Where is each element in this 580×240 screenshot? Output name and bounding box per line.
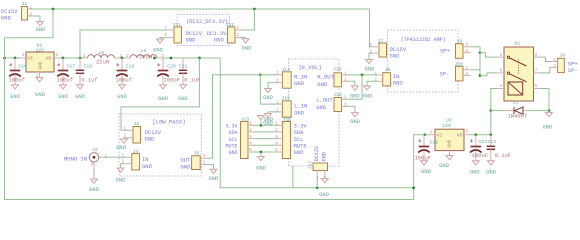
- ground symbol C20: [160, 85, 167, 89]
- svg-text:3: 3: [249, 135, 252, 140]
- svg-text:1: 1: [370, 43, 373, 48]
- svg-text:J11: J11: [173, 22, 182, 28]
- svg-text:2: 2: [466, 72, 469, 77]
- svg-text:GND: GND: [317, 81, 328, 88]
- svg-text:1: 1: [83, 54, 86, 59]
- svg-text:L5: L5: [98, 50, 104, 56]
- svg-text:GND: GND: [486, 170, 496, 176]
- svg-text:J10: J10: [455, 61, 464, 67]
- wire J3.2 to ground: [124, 138, 128, 139]
- svg-text:1: 1: [466, 43, 469, 48]
- connector J9: [456, 44, 464, 59]
- svg-text:GND: GND: [178, 96, 188, 102]
- svg-text:SDA: SDA: [228, 130, 237, 136]
- ground symbol J17.2: [321, 179, 328, 183]
- junction on rail x=63: [62, 57, 65, 60]
- pin J13.3: [248, 138, 253, 140]
- wire diode node down to U3 VO: [490, 111, 492, 135]
- svg-text:7: 7: [535, 69, 538, 74]
- svg-text:C24: C24: [488, 139, 497, 145]
- relay coil: [508, 82, 523, 95]
- ground symbol J3.2: [121, 139, 128, 143]
- svg-text:GND: GND: [186, 37, 197, 44]
- svg-text:GND: GND: [208, 176, 218, 182]
- junction on rail x=15: [14, 57, 17, 60]
- svg-text:GND: GND: [153, 48, 163, 54]
- ground symbol coil: [546, 113, 553, 117]
- junction on rail x=122: [121, 57, 124, 60]
- svg-text:J17: J17: [308, 161, 314, 170]
- svg-text:SP-: SP-: [568, 67, 578, 74]
- wire jack sleeve to ground: [93, 169, 95, 179]
- svg-text:1: 1: [30, 6, 33, 11]
- svg-text:GND: GND: [393, 80, 404, 87]
- wire volume in to J15.1: [260, 75, 278, 104]
- svg-text:1: 1: [375, 71, 378, 76]
- svg-text:J16: J16: [283, 117, 292, 123]
- svg-text:100uf: 100uf: [116, 77, 133, 84]
- wire diode left segment: [491, 110, 507, 112]
- wire to J14.1: [260, 74, 278, 76]
- svg-text:C20: C20: [167, 63, 176, 69]
- junction bottom loop at U3 feed: [412, 186, 415, 189]
- wire J9 to relay pin1: [480, 53, 498, 57]
- wire J18.2 to ground: [346, 81, 355, 86]
- wire J18.1 to amp in: [346, 74, 378, 76]
- wire K1.7 to J6.2: [540, 68, 552, 73]
- svg-text:GND: GND: [39, 61, 44, 69]
- connector J3: [133, 127, 141, 144]
- junction volume R input: [259, 73, 262, 76]
- ground symbol J18.2: [352, 86, 359, 90]
- svg-text:12V: 12V: [36, 47, 45, 53]
- pin U2.2 ground stub: [39, 72, 41, 78]
- dashed box LOW PASS: [119, 114, 201, 176]
- relay K1: [504, 47, 534, 101]
- junction 3.3V row: [260, 124, 263, 127]
- pin U3.3: [464, 134, 470, 136]
- svg-text:1: 1: [500, 53, 503, 58]
- wire J17.1 to bottom loop: [316, 176, 318, 188]
- ground symbol GND row: [258, 157, 265, 161]
- svg-text:3: 3: [56, 53, 59, 58]
- ground symbol U2: [36, 78, 43, 82]
- junction J10 output: [479, 74, 482, 77]
- svg-text:J7: J7: [378, 38, 384, 44]
- ground symbol J11.2: [157, 39, 164, 43]
- capacitor C23: [475, 135, 477, 147]
- inductor L5: [88, 55, 115, 58]
- pin K1.7: [534, 72, 541, 74]
- wire K1.5 down to diode: [540, 89, 549, 111]
- svg-text:GND: GND: [542, 125, 552, 131]
- pin K1.1: [498, 56, 505, 58]
- svg-text:GND: GND: [294, 80, 305, 87]
- svg-text:GND: GND: [58, 94, 68, 100]
- connector J19: [334, 98, 342, 112]
- connector J17: [313, 163, 328, 171]
- ground symbol J12.2: [242, 39, 249, 43]
- svg-text:2: 2: [276, 79, 279, 84]
- connector J14: [282, 72, 291, 88]
- capacitor C16: [14, 58, 16, 71]
- svg-text:GND: GND: [242, 46, 252, 52]
- wire J1.2 to ground: [33, 16, 40, 22]
- svg-text:L_OUT: L_OUT: [316, 97, 333, 104]
- svg-text:GND: GND: [350, 119, 360, 125]
- wire rail VO segment: [60, 57, 85, 59]
- svg-text:1: 1: [466, 66, 469, 71]
- connector J8: [383, 73, 391, 86]
- svg-text:1: 1: [122, 154, 125, 159]
- junction on rail x=199.4: [198, 57, 201, 60]
- inductor L6: [130, 55, 157, 58]
- svg-text:C23: C23: [479, 139, 488, 145]
- svg-text:[LOW PASS]: [LOW PASS]: [153, 119, 186, 126]
- svg-text:2: 2: [466, 49, 469, 54]
- svg-text:0.1uF: 0.1uF: [495, 152, 512, 159]
- connector J12: [228, 27, 236, 43]
- junction U3 VI: [423, 133, 426, 136]
- ground symbol J5.2: [210, 169, 217, 173]
- svg-text:2: 2: [276, 108, 279, 113]
- svg-text:1: 1: [237, 26, 240, 31]
- svg-text:(TPA3122D2 AMP): (TPA3122D2 AMP): [401, 37, 446, 43]
- svg-text:GND: GND: [294, 149, 305, 156]
- svg-text:C16: C16: [18, 63, 27, 69]
- dashed box DC12_DC3.3V: [177, 15, 230, 46]
- wire top rail drop to left rail: [5, 9, 54, 38]
- svg-text:GND: GND: [448, 139, 453, 147]
- svg-text:OUT: OUT: [181, 156, 192, 163]
- pin U3.2 ground: [449, 151, 451, 156]
- wire J5.1 audio up to volume in: [206, 75, 261, 159]
- pin jack sleeve stub: [93, 162, 95, 169]
- svg-text:GND: GND: [36, 27, 46, 33]
- svg-text:GND: GND: [365, 67, 375, 73]
- connector J10: [456, 66, 464, 81]
- svg-text:1: 1: [126, 54, 129, 59]
- svg-text:1N4007: 1N4007: [508, 113, 528, 120]
- svg-text:2: 2: [344, 103, 347, 108]
- pin U3.1: [430, 134, 436, 136]
- wire main rail left segment: [5, 57, 21, 59]
- svg-text:1: 1: [276, 71, 279, 76]
- wire bottom loop up to U3 VI: [414, 135, 425, 200]
- svg-text:GND: GND: [316, 104, 327, 111]
- pin J16.3: [278, 138, 283, 140]
- wire coil return to ground: [548, 111, 550, 113]
- wire up to ground symbol: [260, 121, 262, 126]
- wire J5.2 to ground: [206, 165, 214, 170]
- svg-text:J18: J18: [333, 67, 342, 73]
- svg-text:100uf: 100uf: [8, 77, 25, 84]
- junction at rail left end: [3, 57, 6, 60]
- wire J19.2 to ground: [346, 106, 355, 112]
- svg-text:SP+: SP+: [440, 48, 450, 55]
- wire J11.2 to ground: [160, 38, 169, 39]
- audio jack J2: [89, 153, 98, 162]
- junction C24 and relay feed: [489, 133, 492, 136]
- capacitor C18: [79, 58, 81, 70]
- svg-text:[E_VOL]: [E_VOL]: [299, 64, 322, 71]
- capacitor C22: [423, 135, 425, 147]
- svg-text:VO: VO: [46, 56, 52, 62]
- junction top rail at J12 riser: [253, 8, 256, 11]
- junction diode cathode: [548, 109, 551, 112]
- junction bottom at J17: [316, 186, 319, 189]
- connector J6: [558, 58, 565, 72]
- wire J10 to relay pin8: [480, 73, 498, 76]
- svg-text:GND: GND: [263, 95, 273, 101]
- svg-text:2: 2: [30, 13, 33, 18]
- svg-text:22uH: 22uH: [96, 59, 109, 66]
- svg-text:GND: GND: [421, 169, 431, 175]
- connector J1: [22, 7, 28, 21]
- dashed box E_VOL: [289, 59, 340, 166]
- svg-text:1: 1: [554, 58, 557, 63]
- capacitor C21: [182, 58, 184, 70]
- svg-text:C18: C18: [84, 63, 93, 69]
- svg-text:1: 1: [344, 71, 347, 76]
- svg-text:J13: J13: [241, 117, 250, 123]
- svg-text:GND: GND: [116, 178, 126, 184]
- capacitor C20: [162, 58, 164, 71]
- ground symbol J14.2: [265, 89, 272, 93]
- wire J17.2 to ground: [324, 176, 326, 179]
- svg-text:GND: GND: [439, 163, 449, 169]
- svg-text:C17: C17: [67, 63, 76, 69]
- svg-text:C21: C21: [179, 63, 188, 69]
- svg-text:8: 8: [500, 69, 503, 74]
- ground symbol C19: [119, 85, 126, 89]
- wire K1.4 down to diode: [491, 89, 498, 111]
- svg-text:1: 1: [165, 26, 168, 31]
- svg-text:J8: J8: [385, 67, 391, 73]
- connector J11: [174, 27, 182, 43]
- svg-text:GND: GND: [89, 187, 99, 193]
- svg-text:J3: J3: [134, 121, 140, 127]
- wire 12V feed down from rail: [121, 58, 199, 130]
- regulator U3: [435, 129, 464, 150]
- wire main rail riser to J11.1: [80, 30, 169, 58]
- svg-text:VO: VO: [457, 132, 463, 138]
- junction GND row: [260, 151, 263, 154]
- wire J8.2 to ground: [367, 81, 378, 86]
- svg-text:U3: U3: [446, 118, 452, 124]
- connector J16: [282, 122, 290, 159]
- svg-text:5: 5: [535, 84, 538, 89]
- wire left edge supply loop: [5, 38, 414, 200]
- wire J9.1 down to J9.2 node: [471, 47, 480, 53]
- ground symbol C18: [77, 85, 84, 89]
- relay actuator link: [518, 60, 520, 74]
- svg-text:2: 2: [344, 78, 347, 83]
- svg-text:GND: GND: [390, 53, 401, 60]
- ground symbol 3.3V row: [258, 116, 265, 120]
- svg-text:J9: J9: [457, 39, 463, 45]
- connector J15: [282, 101, 291, 117]
- svg-text:2: 2: [249, 128, 252, 133]
- svg-text:VI: VI: [437, 132, 443, 138]
- ground symbol jack: [91, 179, 98, 183]
- dashed box TPA3122D2 AMP: [387, 30, 458, 92]
- junction on rail x=171: [170, 57, 173, 60]
- svg-text:MONO IN: MONO IN: [64, 156, 87, 163]
- wire down to ground: [260, 152, 262, 157]
- pin K1.8: [498, 72, 505, 74]
- ground symbol C21: [180, 85, 187, 89]
- wire J15.2 to ground: [268, 112, 278, 114]
- svg-text:12V: 12V: [442, 123, 451, 129]
- wire J10.1 down to J10.2 node: [471, 69, 480, 71]
- pin K1.2: [534, 56, 541, 58]
- ground symbol C17: [60, 85, 67, 89]
- ground symbol C24: [487, 161, 494, 165]
- svg-text:J2: J2: [92, 147, 98, 153]
- svg-text:2: 2: [370, 50, 373, 55]
- pin J16.4: [278, 144, 283, 146]
- svg-text:GND: GND: [470, 170, 480, 176]
- pin K1.4: [498, 88, 505, 90]
- svg-text:3: 3: [466, 129, 469, 134]
- svg-text:GND: GND: [322, 152, 328, 161]
- wire jack to J4.1: [104, 156, 126, 158]
- svg-text:3.3V: 3.3V: [225, 123, 237, 129]
- svg-text:GND: GND: [10, 94, 20, 100]
- wire J13.3 to J16.3: [253, 138, 278, 140]
- pin J13.5: [248, 151, 253, 153]
- svg-text:(DC12_DC3.3V): (DC12_DC3.3V): [186, 19, 228, 25]
- svg-text:GND: GND: [228, 150, 237, 156]
- svg-text:0.1uF: 0.1uF: [184, 77, 201, 84]
- wire diode right segment: [527, 110, 549, 112]
- svg-text:GND: GND: [35, 92, 45, 98]
- ground symbol C22: [421, 161, 428, 165]
- wire mystery gnd drop: [292, 166, 294, 188]
- pin J16.2: [278, 131, 283, 133]
- pin J13.2: [248, 131, 253, 133]
- svg-text:0.1uf: 0.1uf: [81, 77, 98, 84]
- wire VO line: [470, 134, 491, 136]
- junction C23: [474, 133, 477, 136]
- svg-text:DC12V: DC12V: [314, 145, 320, 161]
- svg-text:GND: GND: [256, 166, 266, 172]
- ground symbol J15.2: [265, 114, 272, 118]
- svg-text:R_OUT: R_OUT: [317, 73, 334, 80]
- ground symbol J8.2: [364, 86, 371, 90]
- junction diode anode: [489, 109, 492, 112]
- svg-text:J6: J6: [560, 53, 566, 59]
- pin U2.3 stub: [54, 57, 60, 59]
- svg-text:100uF: 100uF: [472, 152, 489, 159]
- svg-text:2: 2: [375, 78, 378, 83]
- svg-text:GND: GND: [181, 163, 192, 170]
- wire VI wire to U3: [425, 134, 430, 136]
- wire top rail drop to J7.1: [370, 9, 374, 47]
- wire J19.1 to amp in: [346, 75, 362, 99]
- ground symbol U3: [446, 156, 453, 160]
- svg-text:1: 1: [430, 129, 433, 134]
- wire J4.2 to ground: [121, 164, 126, 168]
- wire rail after L6: [160, 57, 220, 59]
- svg-text:100uF: 100uF: [164, 77, 181, 84]
- pin K1.5: [534, 88, 541, 90]
- junction J9 output: [479, 51, 482, 54]
- relay contact 1: [507, 56, 509, 58]
- svg-text:J12: J12: [226, 22, 235, 28]
- capacitor C24: [490, 135, 492, 147]
- capacitor C17: [62, 58, 64, 71]
- ground symbol C23: [472, 161, 479, 165]
- svg-text:1: 1: [276, 101, 279, 106]
- relay contact 2: [507, 72, 509, 74]
- svg-text:2: 2: [535, 53, 538, 58]
- svg-text:GND: GND: [117, 94, 127, 100]
- wire J1.1 to top rail: [33, 8, 370, 10]
- svg-text:GND: GND: [363, 94, 373, 100]
- pin J16.5: [278, 151, 283, 153]
- wire J13.2 to J16.2: [253, 131, 278, 133]
- pin J13.4: [248, 144, 253, 146]
- svg-text:100uf: 100uf: [57, 77, 74, 84]
- svg-text:GND: GND: [1, 15, 12, 22]
- svg-text:1: 1: [22, 53, 25, 58]
- svg-text:GND: GND: [116, 145, 126, 151]
- svg-text:C22: C22: [430, 139, 439, 145]
- junction at (53,9): [52, 8, 55, 11]
- connector J13: [241, 122, 249, 159]
- pin J16.1: [278, 124, 283, 126]
- wire rail after L5: [118, 57, 127, 59]
- svg-text:5: 5: [249, 148, 252, 153]
- connector J5: [192, 156, 201, 170]
- ground symbol for J1.2: [37, 22, 44, 26]
- svg-text:GND: GND: [319, 192, 329, 198]
- svg-text:SCL: SCL: [228, 137, 237, 143]
- wire K1.2 to J6.1: [540, 57, 552, 61]
- svg-text:SP-: SP-: [440, 71, 450, 78]
- svg-text:4: 4: [249, 142, 252, 147]
- pin J13.1: [248, 124, 253, 126]
- svg-text:1: 1: [249, 121, 252, 126]
- svg-text:GND: GND: [350, 94, 360, 100]
- wire rail corner to bottom loop: [220, 58, 413, 188]
- connector J4: [132, 154, 140, 170]
- svg-text:2: 2: [554, 64, 557, 69]
- svg-text:D1: D1: [513, 99, 519, 105]
- svg-text:K1: K1: [515, 41, 521, 47]
- wire tie J9.2 J10.2: [479, 53, 481, 76]
- wire J7.2 to ground: [369, 53, 374, 59]
- connector J7: [379, 43, 387, 57]
- svg-text:4: 4: [500, 84, 503, 89]
- wire J14.2 to ground: [268, 83, 278, 89]
- svg-text:GND: GND: [158, 96, 168, 102]
- ground symbol J7.2: [366, 60, 373, 64]
- ground symbol J4.2: [117, 168, 124, 172]
- svg-text:J1: J1: [22, 1, 28, 7]
- pin jack tip stub: [99, 156, 104, 158]
- ground symbol C16: [12, 85, 19, 89]
- svg-text:GND: GND: [145, 136, 156, 143]
- regulator U2: [26, 52, 54, 72]
- junction on rail x=80: [79, 57, 82, 60]
- svg-text:GND: GND: [264, 117, 273, 123]
- diode D1: [507, 110, 514, 112]
- wire J12.1 riser to top rail: [241, 9, 255, 30]
- svg-text:22uH: 22uH: [139, 54, 152, 61]
